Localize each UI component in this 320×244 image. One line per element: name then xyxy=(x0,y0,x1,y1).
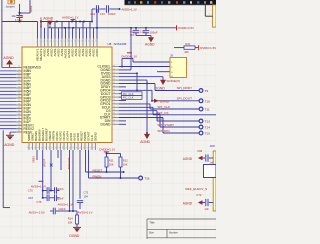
svg-text:36: 36 xyxy=(18,120,20,122)
svg-text:RESET: RESET xyxy=(93,168,103,172)
svg-text:61: 61 xyxy=(66,147,68,149)
svg-text:10K: 10K xyxy=(68,220,73,224)
svg-text:SDIOE(X): SDIOE(X) xyxy=(166,79,180,83)
svg-text:7: 7 xyxy=(57,41,59,42)
svg-text:SRB1: SRB1 xyxy=(32,156,36,163)
capacitor C69 bottom 110nF xyxy=(50,207,77,215)
power label AVDD=1.1V right of caps xyxy=(119,7,137,11)
capacitor C73 right 1nF xyxy=(183,193,213,211)
power port AGND top-left of pins xyxy=(3,56,14,68)
svg-text:C12: C12 xyxy=(90,12,95,16)
svg-text:6: 6 xyxy=(54,41,56,42)
svg-text:26: 26 xyxy=(18,86,20,88)
svg-text:44: 44 xyxy=(113,79,115,81)
svg-text:57: 57 xyxy=(113,123,115,125)
svg-text:27: 27 xyxy=(18,90,20,92)
U8 designator text xyxy=(108,42,127,46)
title block xyxy=(147,219,216,239)
ground DGND bottom xyxy=(69,227,81,238)
svg-text:64: 64 xyxy=(76,147,78,149)
svg-text:50: 50 xyxy=(27,147,29,149)
svg-text:AVDD=1.1V: AVDD=1.1V xyxy=(121,7,137,11)
svg-text:DGND: DGND xyxy=(69,234,80,238)
net label RC_CLK box 2 xyxy=(119,96,142,100)
testpoint T13 xyxy=(199,119,210,124)
svg-text:100nF: 100nF xyxy=(150,31,158,35)
wire DVDD row to DOUT row vertical xyxy=(119,72,138,91)
power port AVDD=1.1V above rails xyxy=(62,16,79,22)
svg-text:DGND: DGND xyxy=(94,131,98,141)
svg-text:R11: R11 xyxy=(109,158,114,162)
wire caps to rails xyxy=(91,9,97,28)
svg-text:104: 104 xyxy=(84,196,89,199)
wire GPIO4 stub xyxy=(119,86,126,88)
U8 top pin stubs and names AVDD/AVSS xyxy=(36,39,100,61)
svg-text:SPI_DRDY: SPI_DRDY xyxy=(177,86,192,90)
power port DGND right-arrow xyxy=(154,99,170,104)
svg-text:C67: C67 xyxy=(28,196,33,200)
svg-text:Number: Number xyxy=(169,232,178,235)
svg-text:REF_ELECV_S: REF_ELECV_S xyxy=(185,187,207,191)
svg-text:54: 54 xyxy=(41,147,43,149)
wire AVSS rail (lower) xyxy=(48,27,177,29)
svg-text:60: 60 xyxy=(62,147,64,149)
svg-text:4: 4 xyxy=(47,41,49,42)
svg-text:SPI_START: SPI_START xyxy=(157,123,174,127)
U8 bottom pin stubs and names xyxy=(27,128,98,150)
svg-text:2: 2 xyxy=(40,41,42,42)
svg-text:R11: R11 xyxy=(185,42,190,46)
svg-text:24: 24 xyxy=(18,80,20,82)
wire DOUT to T10 xyxy=(119,90,199,101)
IC U10 partial right edge xyxy=(210,145,216,211)
wire C11 to BIASINV pin xyxy=(2,21,38,23)
svg-text:AGND: AGND xyxy=(4,143,15,147)
svg-text:ADS1299: ADS1299 xyxy=(114,42,127,46)
svg-text:68: 68 xyxy=(90,147,92,149)
testpoint T16 xyxy=(139,176,150,181)
wires bottom pins downward xyxy=(37,150,80,211)
svg-text:47: 47 xyxy=(113,89,115,91)
svg-text:49: 49 xyxy=(113,96,115,98)
wire DVDD to CLKSEL xyxy=(121,59,123,68)
svg-text:T16: T16 xyxy=(144,177,150,181)
power port AGND bottom-left of pins xyxy=(4,132,15,147)
svg-text:38: 38 xyxy=(18,127,20,129)
svg-text:AGND: AGND xyxy=(140,140,150,144)
net label vertical below bottom pins xyxy=(32,156,36,163)
svg-text:C16: C16 xyxy=(140,29,145,33)
svg-text:T10: T10 xyxy=(205,99,211,103)
svg-text:C68: C68 xyxy=(197,149,202,153)
svg-text:22: 22 xyxy=(18,73,20,75)
svg-text:55: 55 xyxy=(113,116,115,118)
component box right (relay outline) xyxy=(204,165,217,178)
svg-text:Jumper: Jumper xyxy=(5,4,14,8)
no-ERC cross marker xyxy=(50,164,53,167)
svg-text:DGND: DGND xyxy=(155,87,166,91)
svg-text:C13: C13 xyxy=(100,12,105,16)
svg-text:9: 9 xyxy=(64,41,66,42)
svg-text:DVDD=1.5V: DVDD=1.5V xyxy=(200,46,216,50)
svg-text:41: 41 xyxy=(113,68,115,70)
svg-text:T15: T15 xyxy=(205,132,211,136)
svg-text:110nF: 110nF xyxy=(57,187,65,191)
svg-text:BIASINV: BIASINV xyxy=(39,17,43,28)
svg-text:32: 32 xyxy=(18,107,20,109)
svg-text:AVSS=-2.5V: AVSS=-2.5V xyxy=(29,211,45,215)
wire R11/R12 tops xyxy=(106,153,121,157)
svg-text:42: 42 xyxy=(113,72,115,74)
resistor R12 10K xyxy=(119,157,128,178)
wire CLK to T13 xyxy=(119,111,199,122)
testpoint T11 xyxy=(199,107,210,112)
net label RC_CLK box 1 xyxy=(119,92,142,96)
wire PWDN row to T16 xyxy=(89,150,139,179)
svg-text:PWDN: PWDN xyxy=(93,174,102,178)
power port AVSS=1.1V left xyxy=(31,181,46,188)
svg-text:110nF: 110nF xyxy=(57,197,65,201)
svg-text:3: 3 xyxy=(43,41,45,42)
svg-text:56: 56 xyxy=(113,119,115,121)
svg-text:30: 30 xyxy=(18,100,20,102)
svg-text:C70: C70 xyxy=(28,188,33,192)
net label BIASINV vertical xyxy=(39,17,43,28)
capacitor C17 1nF xyxy=(130,27,139,37)
svg-text:50: 50 xyxy=(113,99,115,101)
svg-text:53: 53 xyxy=(113,109,115,111)
svg-text:AVSS=1.1V: AVSS=1.1V xyxy=(58,203,73,207)
U8 right pin stubs and names xyxy=(97,65,119,127)
resistor R14 10K xyxy=(68,215,79,227)
svg-text:66: 66 xyxy=(83,147,85,149)
svg-text:1nF: 1nF xyxy=(204,207,209,211)
power label AVSS=-2.5V bottom row xyxy=(29,211,45,215)
wire vertical stub near jumper xyxy=(19,0,33,14)
svg-text:5: 5 xyxy=(50,41,52,42)
svg-text:62: 62 xyxy=(69,147,71,149)
svg-text:J9: J9 xyxy=(170,53,173,57)
power label AVSS=1.1V mid xyxy=(58,203,73,207)
wire DGND stub rows xyxy=(119,121,126,124)
svg-text:SPI_DOUT: SPI_DOUT xyxy=(177,96,193,100)
testpoint T14 xyxy=(199,125,210,130)
svg-text:R14: R14 xyxy=(68,216,73,220)
wire AVSS row to DGND ground xyxy=(119,77,163,80)
svg-text:40: 40 xyxy=(113,65,115,67)
svg-text:U8: U8 xyxy=(108,42,112,46)
svg-text:18: 18 xyxy=(96,40,98,42)
svg-text:SPI_CLK: SPI_CLK xyxy=(157,105,171,109)
wire RESET row xyxy=(86,150,125,173)
top window strip (cropped dark bar) xyxy=(125,0,217,6)
svg-text:16: 16 xyxy=(89,40,91,42)
svg-text:RC_CLK: RC_CLK xyxy=(123,96,134,100)
svg-text:51: 51 xyxy=(113,102,115,104)
svg-text:AGND: AGND xyxy=(3,56,14,60)
svg-text:1: 1 xyxy=(36,41,38,42)
svg-text:AVSS=1.1V: AVSS=1.1V xyxy=(31,184,46,188)
connector J9 SDIOE xyxy=(166,53,186,82)
svg-text:45: 45 xyxy=(113,82,115,84)
svg-text:52: 52 xyxy=(113,106,115,108)
svg-text:SPI_DIN: SPI_DIN xyxy=(157,129,169,133)
svg-text:17: 17 xyxy=(92,40,94,42)
svg-text:28: 28 xyxy=(18,93,20,95)
power port AGND above rails xyxy=(43,16,53,28)
power port DVDD=1.1V above R11/R12 xyxy=(99,148,115,154)
svg-text:37: 37 xyxy=(18,124,20,126)
wire into top-right connector xyxy=(205,5,212,16)
wires top pins to rails xyxy=(38,9,98,39)
svg-text:DGND: DGND xyxy=(160,100,170,104)
svg-text:59: 59 xyxy=(59,147,61,149)
svg-text:31: 31 xyxy=(18,103,20,105)
svg-text:43: 43 xyxy=(113,75,115,77)
svg-text:55: 55 xyxy=(45,147,47,149)
ground DGND near J9 xyxy=(155,80,166,91)
svg-text:67: 67 xyxy=(87,147,89,149)
power label AVSS=1.1V bottom right xyxy=(78,210,93,214)
op IC U8 ADS1299 body xyxy=(22,47,112,143)
svg-text:34: 34 xyxy=(18,114,20,116)
svg-text:58: 58 xyxy=(55,147,57,149)
svg-text:AVDD: AVDD xyxy=(95,48,99,57)
power port DVDD=1.1V above CLKSEL xyxy=(121,53,137,59)
wire jumper down to C11 xyxy=(19,4,21,16)
svg-text:Size: Size xyxy=(149,232,154,235)
svg-text:48: 48 xyxy=(113,92,115,94)
svg-text:11: 11 xyxy=(71,40,73,42)
svg-text:T13: T13 xyxy=(205,120,211,124)
svg-text:4: 4 xyxy=(209,14,210,16)
wire DRDY to T9 xyxy=(119,84,199,91)
capacitor C68 right 1nF xyxy=(183,149,214,165)
svg-text:R12: R12 xyxy=(123,158,128,162)
connector P1 partial top-right xyxy=(213,5,216,27)
testpoint T15 xyxy=(199,131,210,136)
svg-text:T11: T11 xyxy=(205,108,210,112)
net label VREFP vertical xyxy=(43,158,46,167)
svg-text:AD8: AD8 xyxy=(210,145,215,148)
svg-text:8: 8 xyxy=(61,41,63,42)
svg-text:33: 33 xyxy=(18,110,20,112)
svg-text:53: 53 xyxy=(38,147,40,149)
svg-text:21: 21 xyxy=(18,69,20,71)
capacitor C75 on vertical xyxy=(77,191,89,209)
wire DVDD to J9 pin1 xyxy=(133,59,170,63)
svg-text:35: 35 xyxy=(18,117,20,119)
resistor R11 top-right 10K xyxy=(174,42,198,54)
wire SCLK to T11 xyxy=(119,104,199,109)
capacitor C11 1.5nF xyxy=(12,14,24,22)
svg-text:110nF: 110nF xyxy=(58,207,66,211)
capacitor C70 row xyxy=(28,187,64,194)
svg-text:SRB2: SRB2 xyxy=(29,5,33,12)
svg-text:DGND: DGND xyxy=(101,122,112,126)
svg-text:Title: Title xyxy=(149,221,155,225)
wire left vertical to AGND xyxy=(1,0,3,68)
svg-text:C75: C75 xyxy=(84,191,89,194)
svg-text:25: 25 xyxy=(18,83,20,85)
svg-text:AGND: AGND xyxy=(145,42,155,46)
svg-text:T9: T9 xyxy=(205,89,209,93)
wire J9 pin3 stub xyxy=(157,71,170,73)
svg-text:65: 65 xyxy=(80,147,82,149)
svg-text:14: 14 xyxy=(82,40,84,42)
svg-text:20: 20 xyxy=(18,66,20,68)
svg-text:1nF: 1nF xyxy=(130,33,135,37)
svg-text:AGND: AGND xyxy=(183,201,193,205)
ground AGND below C16/C17 xyxy=(136,36,155,47)
resistor R11 10K xyxy=(105,157,114,172)
wire START to T14 xyxy=(119,114,199,127)
wire CLKSEL to J9 pin2 xyxy=(119,66,170,68)
svg-text:10: 10 xyxy=(68,40,70,42)
capacitor C16 100nF xyxy=(140,27,158,36)
svg-text:54: 54 xyxy=(113,113,115,115)
svg-text:52: 52 xyxy=(34,147,36,149)
svg-text:AGND: AGND xyxy=(183,157,193,161)
wire DIN to T15 xyxy=(119,118,199,134)
svg-text:63: 63 xyxy=(73,147,75,149)
svg-text:39: 39 xyxy=(18,131,20,133)
svg-text:1nF: 1nF xyxy=(209,160,214,164)
svg-text:51: 51 xyxy=(31,147,33,149)
svg-text:DVDD=1.1V: DVDD=1.1V xyxy=(99,148,115,152)
svg-text:C73: C73 xyxy=(196,193,201,197)
U8 left pin stubs and names IN1..IN8 xyxy=(0,66,42,135)
svg-text:12: 12 xyxy=(75,40,77,42)
svg-text:15: 15 xyxy=(85,40,87,42)
capacitor C67/C76 row xyxy=(28,195,64,204)
capacitor C13 100nF xyxy=(99,5,119,16)
svg-text:DVDD=1.1V: DVDD=1.1V xyxy=(121,55,137,59)
svg-text:69: 69 xyxy=(94,147,96,149)
wire DGND row1 to vertical xyxy=(119,28,131,70)
wire AVDD rail (upper) xyxy=(41,21,92,23)
net label BIASOUT vertical xyxy=(67,157,71,169)
ground AGND below right bundle xyxy=(140,134,150,144)
wire GPIO1 stub xyxy=(119,100,126,102)
svg-text:46: 46 xyxy=(113,85,115,87)
wire DGND row2 to AGND vertical xyxy=(119,80,148,134)
svg-text:C76: C76 xyxy=(37,200,42,204)
svg-text:AVSS=1.1V: AVSS=1.1V xyxy=(78,210,93,214)
svg-text:56: 56 xyxy=(48,147,50,149)
svg-text:T14: T14 xyxy=(205,126,211,130)
capacitor C12 xyxy=(90,5,98,16)
power port DVDD=2.5V at rail end xyxy=(177,25,195,30)
svg-text:10K: 10K xyxy=(123,162,128,166)
svg-text:AVDD=1.1V: AVDD=1.1V xyxy=(62,16,79,20)
svg-text:AGND: AGND xyxy=(43,16,53,20)
net label REF_ELECV_S xyxy=(185,187,207,191)
testpoint T10 xyxy=(199,99,210,104)
svg-text:10K: 10K xyxy=(184,50,189,54)
wire CS off right edge xyxy=(119,107,216,115)
svg-text:23: 23 xyxy=(18,76,20,78)
wire bottom-left vertical xyxy=(3,130,10,207)
svg-text:VREFP: VREFP xyxy=(43,158,46,167)
svg-text:57: 57 xyxy=(52,147,54,149)
svg-text:10K: 10K xyxy=(109,162,114,166)
svg-text:DVDD=2.5V: DVDD=2.5V xyxy=(178,26,194,30)
svg-text:13: 13 xyxy=(78,40,80,42)
jumper J1 xyxy=(5,0,14,8)
testpoint T9 xyxy=(199,89,208,94)
power port DVDD=1.5V xyxy=(199,45,217,50)
svg-text:100nF: 100nF xyxy=(108,12,116,16)
svg-text:29: 29 xyxy=(18,97,20,99)
